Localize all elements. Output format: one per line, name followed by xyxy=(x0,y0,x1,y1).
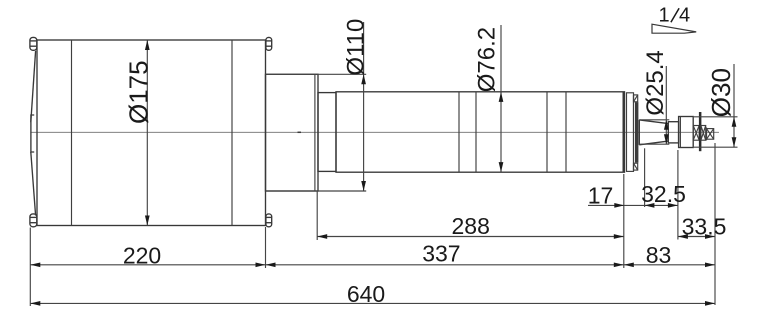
svg-text:Ø76.2: Ø76.2 xyxy=(474,27,501,92)
cylinder neck ring xyxy=(318,93,336,172)
dimension 32.5 xyxy=(641,181,686,208)
svg-text:17: 17 xyxy=(588,182,614,208)
cylinder ring seam 4 xyxy=(546,92,548,172)
svg-text:220: 220 xyxy=(123,242,161,268)
screw right top xyxy=(266,37,272,50)
svg-text:4: 4 xyxy=(679,5,690,27)
screw left top xyxy=(30,37,37,50)
body seam right xyxy=(231,40,233,226)
dimension 288 xyxy=(317,213,624,239)
cone base face xyxy=(638,120,640,145)
left end cap taper xyxy=(31,51,36,216)
collet nut body (D30) xyxy=(679,117,694,148)
screw right bottom xyxy=(266,214,272,227)
chamfer box bottom xyxy=(634,163,638,170)
spindle nose end cap xyxy=(623,92,639,172)
taper cone xyxy=(639,120,668,145)
svg-text:337: 337 xyxy=(422,240,460,266)
body seam left xyxy=(71,40,73,226)
mid cylinder (D76.2) xyxy=(336,92,625,172)
cylinder ring seam 3 xyxy=(475,92,477,172)
nut face line xyxy=(679,117,681,148)
extension line left end xyxy=(29,228,31,307)
cylinder ring seam 5 xyxy=(565,92,567,172)
flange (D110) xyxy=(266,74,319,191)
knurl box B xyxy=(701,126,706,141)
svg-text:Ø30: Ø30 xyxy=(706,68,736,117)
dimension 33.5 xyxy=(678,214,726,240)
flange inner face line xyxy=(314,74,316,191)
seal dark band xyxy=(635,102,638,162)
dimension D25.4 xyxy=(639,50,669,144)
extension line cylinder end xyxy=(623,174,625,268)
svg-text:33.5: 33.5 xyxy=(682,214,727,240)
svg-text:32.5: 32.5 xyxy=(641,181,686,207)
dimension D175 xyxy=(124,40,154,226)
end plug xyxy=(707,128,714,141)
svg-text:Ø110: Ø110 xyxy=(342,19,369,76)
dimension D76.2 xyxy=(474,25,504,172)
svg-text:640: 640 xyxy=(347,281,385,307)
extension line shaft end xyxy=(714,143,716,305)
dimension 220 xyxy=(30,242,624,268)
taper symbol 1/4 xyxy=(652,5,696,34)
dimension 640 xyxy=(30,281,715,307)
extension line taper gauge xyxy=(644,148,646,207)
centerline xyxy=(30,131,719,133)
svg-text:288: 288 xyxy=(452,213,490,239)
svg-text:Ø25.4: Ø25.4 xyxy=(642,50,669,115)
dimension D110 xyxy=(266,19,370,191)
svg-text:83: 83 xyxy=(646,242,672,268)
shaft stub xyxy=(668,122,678,143)
motor main body xyxy=(37,40,266,226)
dimension 83 xyxy=(624,242,715,268)
svg-text:Ø175: Ø175 xyxy=(124,60,154,124)
cylinder ring seam 2 xyxy=(458,92,460,172)
svg-text:1: 1 xyxy=(658,5,669,27)
extension line flange right xyxy=(316,191,318,240)
chamfer box top xyxy=(634,95,638,102)
spacer disc xyxy=(699,112,702,151)
screw left bottom xyxy=(30,214,37,227)
extension line nut face xyxy=(677,150,679,240)
dimension 337 xyxy=(422,240,624,267)
dimension 17 xyxy=(588,182,678,208)
extension line body right xyxy=(265,227,267,268)
dimension D30 xyxy=(694,64,738,147)
knurl box A xyxy=(693,126,699,141)
